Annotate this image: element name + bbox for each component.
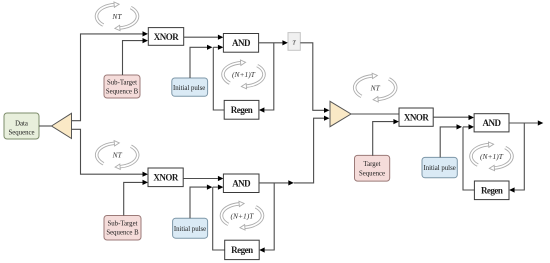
svg-text:Regen: Regen [481, 186, 503, 196]
svg-text:Sequence: Sequence [359, 170, 385, 177]
wire Initial pulse bottom to AND second input [190, 185, 212, 219]
gate XNOR (top) [148, 28, 183, 46]
gate AND (right) [474, 114, 509, 132]
wire mixer to XNOR right [351, 113, 399, 115]
gate AND (top) [223, 34, 258, 53]
svg-text:XNOR: XNOR [153, 173, 178, 183]
svg-text:Initial pulse: Initial pulse [174, 226, 206, 233]
box Initial pulse (bottom) [173, 218, 208, 238]
svg-text:(N+1)T: (N+1)T [480, 152, 504, 161]
delay box T [288, 33, 300, 51]
box Sub-Target Sequence B (top) [104, 75, 140, 98]
wire Regen feedback riser (right) [463, 127, 474, 190]
wire data sequence to splitter [39, 125, 52, 127]
box Target Sequence [355, 155, 390, 181]
svg-text:AND: AND [232, 38, 251, 48]
wire Initial pulse top to AND second input [190, 45, 213, 78]
svg-text:Sequence B: Sequence B [106, 89, 139, 96]
gate Regen (top) [224, 100, 259, 119]
box Data Sequence [4, 113, 39, 139]
splitter triangle T1 [52, 113, 72, 138]
wire delay T to mixer triangle upper input [300, 43, 329, 113]
gate Regen (right) [474, 181, 509, 200]
cycle arrows (N+1)T (bottom loop) [221, 201, 262, 230]
wire junction to AND second input (right) [463, 124, 474, 129]
cycle arrows (N+1)T (top loop) [223, 60, 264, 89]
mixer triangle T2 [330, 101, 351, 126]
wire AND output to delay T box [259, 40, 288, 45]
wire splitter upper output to XNOR top input [72, 31, 149, 120]
wire Initial pulse right to AND second input [440, 124, 462, 157]
svg-text:Regen: Regen [231, 245, 253, 255]
svg-text:Sequence: Sequence [8, 130, 34, 137]
svg-text:NT: NT [112, 151, 123, 160]
wire junction to AND second input (top) [213, 45, 223, 50]
wire Sub-Target B to XNOR second input [123, 38, 149, 75]
cycle arrows NT (top-left loop) [96, 2, 137, 31]
svg-text:(N+1)T: (N+1)T [231, 211, 255, 220]
gate XNOR (right) [399, 108, 433, 126]
wire XNOR to AND (top) [184, 35, 224, 40]
wire XNOR right to AND right [433, 115, 474, 120]
svg-text:XNOR: XNOR [404, 113, 429, 123]
svg-text:Target: Target [363, 161, 380, 168]
wire Sub-Target B bottom to XNOR second input [124, 180, 148, 216]
wire AND bottom output to mixer triangle lower input [259, 116, 330, 186]
svg-text:Initial pulse: Initial pulse [423, 165, 455, 172]
gate Regen (bottom) [225, 240, 260, 259]
svg-text:XNOR: XNOR [154, 32, 179, 42]
box Initial pulse (right) [422, 157, 457, 177]
svg-text:Initial pulse: Initial pulse [173, 85, 205, 92]
cycle arrows NT (bottom loop) [97, 141, 138, 170]
wire AND bottom output down to Regen (bottom feedback) [259, 183, 274, 253]
svg-text:(N+1)T: (N+1)T [232, 70, 256, 79]
cycle arrows NT (right loop) [355, 73, 396, 102]
svg-text:Data: Data [15, 121, 28, 128]
wire Target Sequence to XNOR right second input [373, 119, 399, 156]
svg-text:AND: AND [483, 118, 502, 128]
svg-text:Sub-Target: Sub-Target [108, 221, 138, 228]
svg-text:AND: AND [232, 178, 251, 188]
svg-text:Sequence B: Sequence B [106, 230, 139, 237]
wire AND right output down to Regen (right feedback) [509, 123, 524, 193]
box Initial pulse (top) [172, 78, 208, 96]
svg-text:Sub-Target: Sub-Target [107, 80, 137, 87]
svg-text:NT: NT [111, 12, 122, 21]
wire Regen feedback riser (top) [213, 47, 224, 110]
svg-text:NT: NT [370, 83, 381, 92]
wire AND output down to Regen (top feedback) [259, 43, 274, 113]
cycle arrows (N+1)T (right loop) [471, 142, 512, 171]
wire junction to AND second input (bottom) [213, 185, 224, 190]
gate XNOR (bottom) [148, 168, 183, 187]
wire XNOR to AND (bottom) [183, 176, 223, 181]
svg-text:Regen: Regen [231, 105, 253, 115]
wire Regen feedback riser (bottom) [213, 187, 225, 250]
gate AND (bottom) [223, 174, 259, 193]
wire splitter lower output to bottom XNOR input [72, 129, 149, 177]
box Sub-Target Sequence B (bottom) [104, 216, 141, 241]
wire AND right final output [509, 120, 543, 125]
